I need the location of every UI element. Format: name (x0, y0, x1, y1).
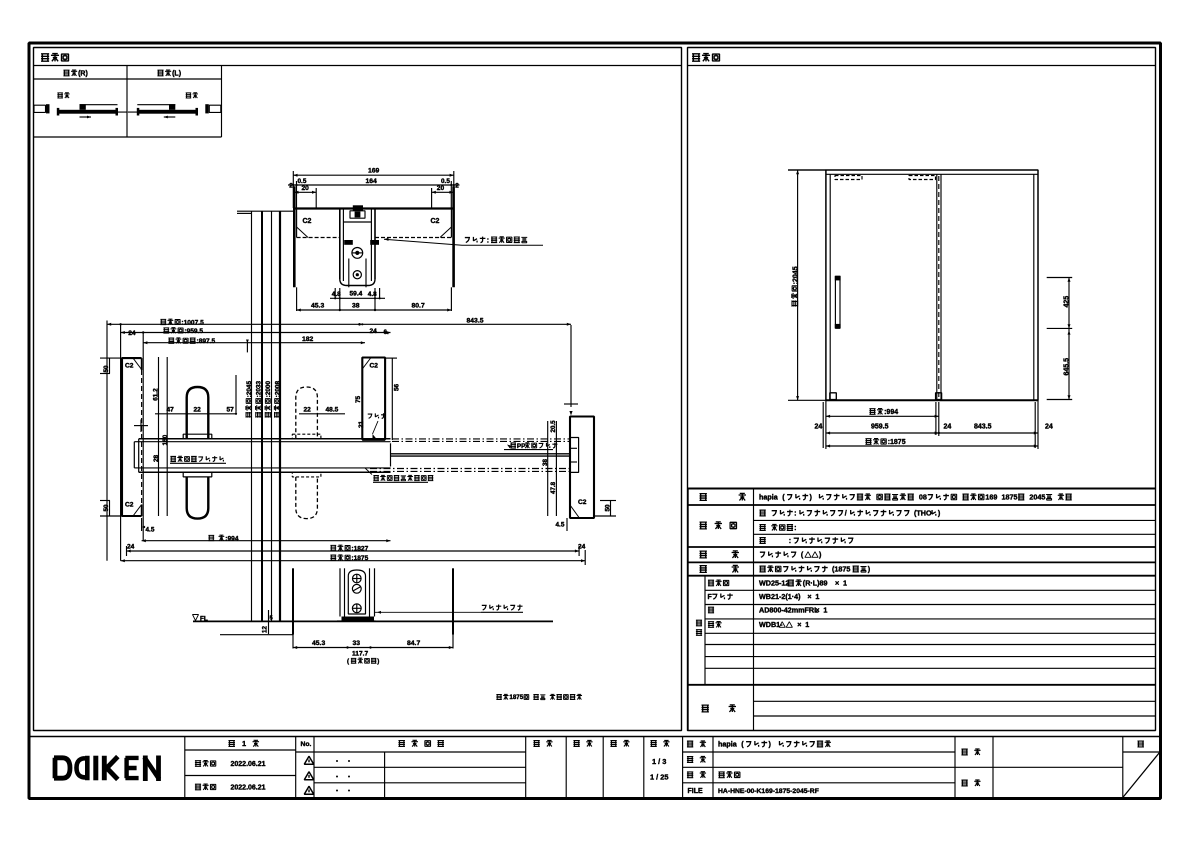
svg-text:50: 50 (605, 504, 612, 512)
svg-text:12: 12 (262, 626, 269, 633)
svg-text:24: 24 (578, 544, 586, 551)
svg-text::2045: :2045 (792, 266, 799, 284)
svg-text::994: :994 (225, 535, 239, 542)
svg-text:47: 47 (167, 407, 175, 414)
svg-text:75: 75 (355, 395, 362, 403)
svg-text:0.5: 0.5 (441, 178, 450, 185)
svg-text:80.7: 80.7 (412, 303, 425, 310)
svg-text::994: :994 (884, 409, 898, 416)
svg-text::1875: :1875 (888, 439, 906, 446)
svg-text:2022.06.21: 2022.06.21 (231, 761, 266, 768)
svg-text:C2: C2 (125, 501, 134, 508)
svg-text:2: 2 (289, 183, 293, 190)
svg-text:57: 57 (227, 407, 235, 414)
svg-text:hapia: hapia (759, 493, 779, 502)
svg-text:21: 21 (358, 420, 365, 428)
svg-text:2045: 2045 (1029, 493, 1045, 502)
svg-text:FL: FL (200, 616, 208, 623)
svg-text:24: 24 (128, 330, 136, 337)
svg-text:47.8: 47.8 (550, 481, 557, 494)
svg-text:0.5: 0.5 (298, 178, 307, 185)
svg-text:22: 22 (304, 407, 312, 414)
svg-text:24: 24 (127, 544, 135, 551)
svg-text::2008: :2008 (274, 381, 281, 398)
svg-text:WD25-12: WD25-12 (759, 579, 789, 588)
svg-text:24: 24 (944, 424, 952, 431)
svg-text:1: 1 (815, 592, 819, 601)
svg-text:FILE: FILE (688, 788, 703, 795)
svg-text:4.8: 4.8 (368, 291, 377, 298)
svg-text:AD800-42mmFRL: AD800-42mmFRL (759, 606, 819, 615)
svg-text:1: 1 (242, 739, 246, 748)
svg-text:C2: C2 (431, 218, 440, 225)
svg-text:(: ( (782, 493, 785, 502)
svg-text:(1875: (1875 (832, 565, 850, 574)
svg-text:(R): (R) (78, 71, 88, 78)
svg-text:38: 38 (352, 303, 360, 310)
svg-text:4.5: 4.5 (146, 527, 155, 534)
svg-text:1875: 1875 (1002, 493, 1018, 502)
svg-text:33: 33 (353, 640, 361, 647)
svg-text:C2: C2 (125, 362, 134, 369)
svg-text:(THO: (THO (914, 509, 932, 518)
svg-text:): ) (810, 493, 813, 502)
svg-text::1007.5: :1007.5 (181, 319, 204, 326)
svg-text:50: 50 (103, 365, 110, 373)
svg-text:HA-HNE-00-K169-1875-2045-RF: HA-HNE-00-K169-1875-2045-RF (718, 788, 819, 795)
svg-text::1827: :1827 (351, 545, 368, 552)
svg-text:(L): (L) (172, 71, 181, 78)
svg-text:1: 1 (823, 606, 827, 615)
svg-text:08: 08 (919, 493, 927, 502)
svg-text:24: 24 (370, 328, 378, 335)
svg-text::: : (789, 536, 791, 545)
svg-text:843.5: 843.5 (974, 423, 992, 430)
svg-text:425: 425 (1064, 296, 1071, 308)
svg-text:C2: C2 (370, 362, 379, 369)
svg-text:×: × (815, 606, 819, 615)
svg-text:1 / 25: 1 / 25 (650, 773, 669, 782)
svg-text::: : (794, 509, 796, 518)
svg-text:84.7: 84.7 (407, 640, 420, 647)
svg-text:(: ( (347, 658, 350, 665)
svg-text:C2: C2 (578, 499, 587, 506)
svg-text::2033: :2033 (256, 381, 263, 398)
svg-text:/: / (845, 509, 847, 518)
svg-text:59.4: 59.4 (350, 291, 363, 298)
svg-text:20: 20 (437, 185, 445, 192)
svg-text:): ) (868, 565, 871, 574)
svg-text::: : (487, 237, 489, 244)
svg-text::1875: :1875 (351, 555, 368, 562)
svg-text:160: 160 (162, 434, 169, 445)
svg-text:1: 1 (805, 620, 809, 629)
svg-text::: : (794, 523, 796, 532)
svg-text:117.7: 117.7 (352, 650, 368, 657)
svg-text:(: ( (801, 550, 804, 559)
svg-text:20: 20 (302, 185, 310, 192)
svg-text:): ) (819, 550, 822, 559)
svg-text:F: F (708, 594, 713, 601)
svg-text::959.5: :959.5 (184, 328, 203, 335)
svg-text:4.8: 4.8 (332, 291, 341, 298)
svg-text:24: 24 (1045, 424, 1053, 431)
svg-text:1875: 1875 (509, 694, 523, 701)
svg-text:45.3: 45.3 (312, 640, 325, 647)
svg-text:38: 38 (542, 459, 549, 466)
svg-text:1 / 3: 1 / 3 (652, 757, 666, 766)
svg-text:×: × (835, 579, 839, 588)
svg-text:2: 2 (455, 183, 459, 190)
svg-text:182: 182 (302, 336, 314, 343)
svg-text:645.5: 645.5 (1064, 358, 1071, 376)
svg-text::897.5: :897.5 (197, 338, 216, 345)
svg-text:): ) (769, 740, 772, 749)
svg-text:C2: C2 (303, 218, 312, 225)
svg-text:4.5: 4.5 (556, 522, 565, 529)
svg-text:1: 1 (843, 579, 847, 588)
svg-text:56: 56 (394, 383, 401, 391)
svg-text:169: 169 (368, 168, 380, 175)
svg-text:): ) (938, 509, 941, 518)
svg-text:28: 28 (153, 454, 160, 462)
svg-text:24: 24 (815, 424, 823, 431)
svg-text:): ) (377, 658, 379, 665)
svg-text:WB21-2(1·4): WB21-2(1·4) (759, 592, 801, 601)
svg-text:×: × (807, 592, 811, 601)
svg-text::2000: :2000 (265, 381, 272, 398)
svg-text:45.3: 45.3 (311, 303, 324, 310)
svg-text:50: 50 (103, 504, 110, 512)
svg-text:×: × (797, 620, 801, 629)
svg-text:843.5: 843.5 (467, 317, 484, 324)
svg-text:164: 164 (366, 178, 378, 185)
svg-text::2045: :2045 (246, 381, 253, 398)
svg-text:61.2: 61.2 (153, 388, 160, 401)
svg-text:6.: 6. (384, 329, 390, 336)
svg-text:20.5: 20.5 (550, 420, 557, 433)
svg-text:No.: No. (301, 741, 312, 748)
svg-text:2022.06.21: 2022.06.21 (231, 785, 266, 792)
svg-text:169: 169 (985, 493, 997, 502)
svg-text:(: ( (741, 740, 744, 749)
svg-text:(R·L)89: (R·L)89 (803, 579, 828, 588)
svg-text:959.5: 959.5 (871, 423, 889, 430)
svg-text:hapia: hapia (718, 740, 738, 749)
svg-text:48.5: 48.5 (326, 407, 339, 414)
svg-text:22: 22 (194, 407, 202, 414)
